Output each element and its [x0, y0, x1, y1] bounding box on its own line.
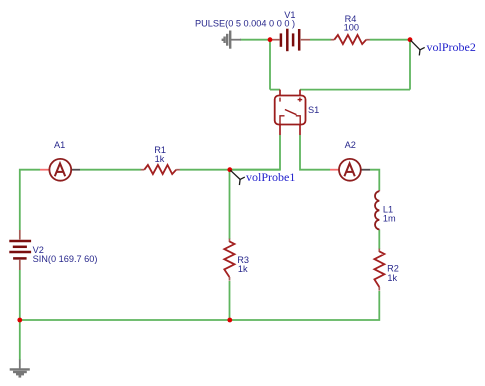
switch S1 — [275, 90, 306, 135]
ammeter A2 — [330, 159, 370, 181]
resistor R2 — [374, 249, 384, 291]
wire R4 to volProbe2 node — [370, 39, 410, 41]
svg-text:1m: 1m — [383, 214, 396, 224]
svg-text:1k: 1k — [238, 264, 248, 274]
wire R1 to volProbe1 node and on to switch leg — [180, 169, 280, 171]
wire left elbow to switch top-left — [270, 89, 280, 91]
wire A1 to R1 — [80, 169, 141, 171]
node bottom-left junction dot — [17, 318, 22, 323]
wire switch bottom-right down to A2 — [300, 135, 330, 170]
wire L1 to R2 — [378, 230, 380, 249]
svg-text:100: 100 — [344, 22, 359, 32]
svg-text:A2: A2 — [345, 140, 356, 150]
wire left rail V2 top — [20, 170, 40, 230]
battery V2 — [9, 230, 31, 270]
node volProbe1 dot — [227, 167, 232, 172]
wire R2 to bottom rail — [20, 291, 380, 320]
svg-text:S1: S1 — [308, 105, 319, 115]
inductor L1 — [375, 190, 379, 230]
node R3 bottom junction dot — [227, 318, 232, 323]
svg-text:volProbe2: volProbe2 — [427, 40, 476, 54]
svg-text:PULSE(0 5 0.004 0 0 0 ): PULSE(0 5 0.004 0 0 0 ) — [195, 19, 295, 29]
svg-text:1k: 1k — [387, 273, 397, 283]
wire switch bottom-left down — [230, 135, 280, 170]
wire top rail ground to V1 junction — [240, 39, 270, 41]
wire right elbow to switch top-right — [300, 89, 410, 91]
svg-text:SIN(0 169.7 60): SIN(0 169.7 60) — [33, 254, 98, 264]
node V1 junction dot — [268, 37, 273, 42]
resistor R1 — [141, 165, 180, 174]
wire A2 to right rail — [370, 170, 379, 190]
wire V2 bottom to bottom junction — [19, 270, 21, 320]
ammeter A1 — [40, 159, 80, 181]
svg-text:1k: 1k — [155, 154, 165, 164]
ground top (points left) — [223, 31, 241, 49]
wire bottom junction to ground — [19, 320, 21, 360]
wire volProbe2 node down — [409, 40, 411, 90]
resistor R3 — [224, 239, 234, 281]
wire volProbe1 node down to R3 — [229, 170, 231, 239]
battery V1 — [270, 29, 310, 52]
resistor R4 — [331, 35, 370, 44]
ground bottom (points down) — [10, 360, 30, 377]
wire V1 junction down — [269, 40, 271, 90]
node volProbe2 dot — [408, 37, 413, 42]
probe volProbe1 symbol — [230, 170, 245, 185]
wire R3 to bottom rail — [229, 281, 231, 320]
svg-text:A1: A1 — [54, 140, 65, 150]
probe volProbe2 symbol — [411, 40, 425, 55]
wire V1 to R4 — [310, 39, 331, 41]
svg-text:volProbe1: volProbe1 — [246, 170, 295, 184]
